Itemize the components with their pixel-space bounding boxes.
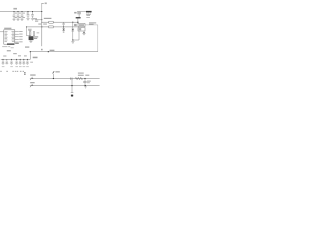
relay K1 box upper [74, 22, 96, 26]
capacitor C4 [27, 11, 30, 18]
diode D1 [62, 27, 65, 33]
net stub [27, 27, 30, 36]
value labels row [2, 65, 29, 68]
pin labels J1 [24, 72, 26, 75]
capacitor C10 between rails [62, 22, 64, 27]
diode D3 bar [76, 17, 81, 18]
capacitor C16 [10, 59, 13, 65]
resistor R1 [29, 32, 31, 36]
power flag +3V3 [42, 3, 47, 12]
IC U4 [86, 11, 92, 18]
capacitor C2 [17, 11, 21, 19]
wire AC line N [33, 85, 100, 87]
node N2 [85, 85, 86, 86]
node tap [53, 71, 60, 79]
ground [12, 19, 15, 21]
terminal X1-1 [30, 74, 36, 80]
capacitor C12 [74, 12, 81, 17]
wire 5V rail A [41, 22, 78, 23]
relay K1 box lower [78, 27, 85, 31]
ferrite bead FB1 [44, 18, 53, 23]
value label R2 [37, 31, 40, 34]
pin wire right [83, 31, 84, 33]
value label [28, 28, 32, 31]
wire [77, 18, 78, 23]
ground [82, 33, 85, 35]
capacitor C14 [1, 59, 4, 65]
wire [73, 39, 79, 41]
ferrite bead FB2 [38, 24, 53, 28]
antenna strip [2, 43, 19, 49]
net label arrow [41, 49, 43, 51]
node +3V3 label [13, 8, 17, 10]
ground [84, 87, 87, 89]
capacitor C18 [19, 59, 22, 65]
ground [31, 19, 34, 21]
wire top 3V3 rail [0, 11, 42, 13]
node L2 [84, 78, 85, 79]
zener D2 [72, 22, 75, 40]
ground [26, 19, 29, 21]
thermistor RT1 [75, 73, 83, 80]
wire AC line L [33, 78, 100, 80]
node junction [72, 39, 73, 40]
pin wire left [78, 31, 80, 40]
wire right top [77, 11, 86, 13]
ground [71, 40, 74, 43]
capacitor C3 [21, 11, 25, 19]
reference labels row [0, 71, 24, 72]
wire bus drop [29, 52, 31, 60]
bus labels [3, 50, 27, 57]
wire decoupling bus [1, 58, 31, 60]
wire long GND net [25, 46, 98, 58]
capacitor CX1 [83, 75, 91, 86]
capacitor C17 [15, 59, 18, 65]
capacitor C1 [13, 11, 17, 19]
wire to right edge [85, 25, 98, 52]
wire 3V3 rail B [26, 26, 78, 27]
wire bridge [71, 79, 72, 87]
pin stubs right [15, 31, 23, 42]
node junction [41, 11, 42, 12]
ground [20, 19, 23, 21]
wire EN net [35, 19, 42, 20]
wire vertical main bus [41, 12, 43, 47]
IC U2 module [4, 28, 15, 44]
capacitor C19 [22, 59, 25, 65]
resistor R2 [33, 32, 35, 36]
IC U3 [29, 36, 39, 40]
capacitor C5 [31, 11, 38, 22]
capacitor C15 [5, 59, 8, 64]
terminal X1-2 [30, 82, 35, 87]
capacitor C20 [26, 59, 29, 65]
fuse F1 [71, 78, 72, 80]
ground [29, 40, 32, 43]
ground [16, 19, 19, 21]
capacitor C21 [71, 86, 74, 97]
pin 1 wire [0, 31, 4, 33]
value label C20 [30, 62, 33, 63]
